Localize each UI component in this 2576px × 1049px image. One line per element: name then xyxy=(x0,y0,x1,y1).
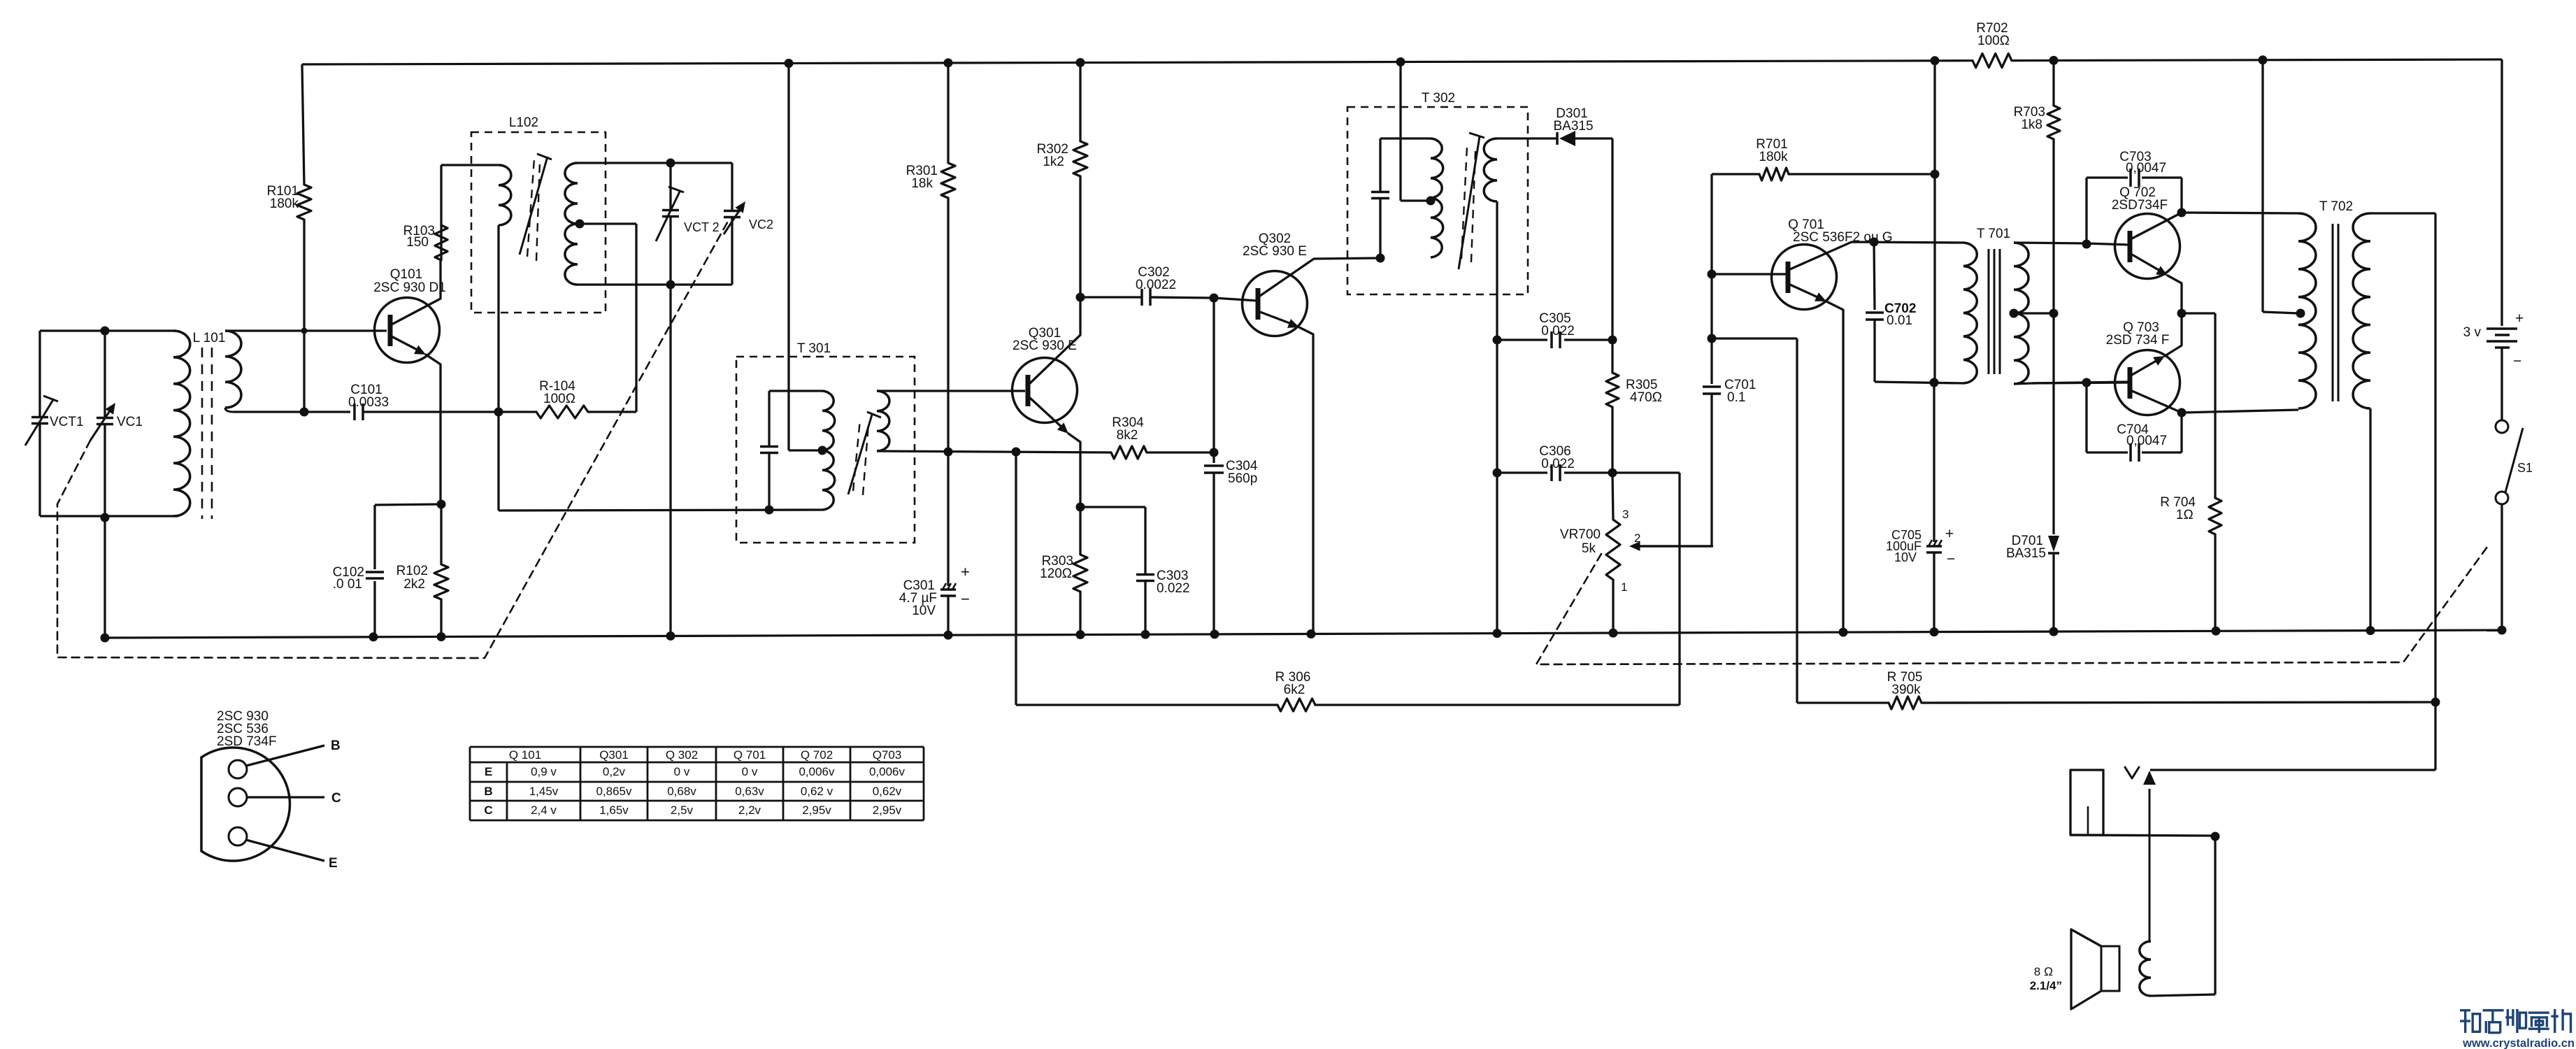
svg-text:2SC 930 E: 2SC 930 E xyxy=(1012,338,1077,353)
svg-text:180k: 180k xyxy=(1759,150,1788,164)
svg-text:Q 702: Q 702 xyxy=(801,748,833,762)
wire jack sleeve to ground xyxy=(2070,835,2215,836)
svg-text:0,865v: 0,865v xyxy=(596,785,632,798)
junction ground bus / T702 secondary xyxy=(2366,626,2375,635)
svg-text:Q 302: Q 302 xyxy=(666,748,698,762)
speaker SP (8 ohm) xyxy=(2071,929,2101,1009)
oscillator coil L102 secondary xyxy=(565,163,578,285)
wire Q302 base xyxy=(1214,298,1257,301)
junction detector / C305 right xyxy=(1608,336,1617,345)
svg-text:+: + xyxy=(1945,526,1954,542)
svg-text:0.0022: 0.0022 xyxy=(1136,278,1176,292)
wire Q702 collector xyxy=(2132,213,2182,238)
wire Q301 base xyxy=(877,390,1025,392)
junction ground bus / Q701 emitter xyxy=(1839,628,1848,637)
output transformer T702 primary xyxy=(2298,213,2316,408)
oscillator coil L102 slug xyxy=(520,157,548,255)
svg-text:1: 1 xyxy=(1621,580,1627,594)
wire Q701 collector xyxy=(1790,242,1963,269)
resistor R701 xyxy=(1712,173,1759,175)
junction L102 primary / C101-R104 line xyxy=(494,408,503,417)
wire bias line to R306 xyxy=(1015,452,1017,705)
junction T701 tap xyxy=(2010,309,2019,318)
junction T702 primary tap xyxy=(2296,309,2305,318)
transistor Q703 xyxy=(2115,350,2180,415)
wire L101 secondary bottom to C101 xyxy=(234,411,350,413)
svg-text:390k: 390k xyxy=(1891,683,1921,697)
potentiometer VR700 wiper xyxy=(1629,541,1640,551)
junction top-bus / R301 xyxy=(944,58,953,67)
svg-text:2,4 v: 2,4 v xyxy=(531,804,557,817)
wire T701 secondary top xyxy=(2014,243,2087,243)
wire Q302 emitter xyxy=(1260,312,1295,325)
pinout pin C xyxy=(229,788,247,806)
svg-text:VCT1: VCT1 xyxy=(50,415,84,429)
svg-text:T 302: T 302 xyxy=(1422,91,1455,106)
svg-text:120Ω: 120Ω xyxy=(1040,566,1072,581)
junction collector / C702 xyxy=(1870,238,1879,247)
wire ground leg to speaker xyxy=(2214,836,2216,994)
junction C306 right / VR700 top xyxy=(1608,469,1617,478)
resistor R102 xyxy=(440,504,442,564)
junction bias line / R306 xyxy=(1012,448,1021,457)
capacitor C302 xyxy=(1080,296,1141,298)
svg-text:18k: 18k xyxy=(911,176,933,191)
svg-text:0,9 v: 0,9 v xyxy=(531,765,557,778)
diode D701 xyxy=(2052,313,2054,534)
wire B+ to T302 tap xyxy=(1399,62,1401,201)
junction VC1 bottom xyxy=(101,513,110,522)
wire antenna tank top xyxy=(40,329,173,331)
wire oscillator tank to ground xyxy=(669,285,671,636)
wire Q301 collector xyxy=(1030,335,1080,383)
IF transformer T302 secondary xyxy=(1484,138,1497,201)
oscillator coil L102 shield box xyxy=(471,132,606,313)
svg-text:Q703: Q703 xyxy=(873,748,902,762)
wire antenna tank bottom xyxy=(40,515,178,517)
resistor R306 xyxy=(1278,699,1315,711)
wire IF base-bias line xyxy=(877,451,1111,452)
junction C305 left xyxy=(1493,336,1502,345)
diode D301 xyxy=(1556,132,1559,145)
wire Q703 emitter xyxy=(2132,359,2159,375)
variable capacitor VC2 xyxy=(731,163,733,210)
potentiometer VR700 xyxy=(1612,473,1613,520)
svg-text:1,45v: 1,45v xyxy=(529,785,559,798)
svg-text:VC2: VC2 xyxy=(749,217,773,231)
driver transformer T701 primary xyxy=(1963,243,1977,383)
junction ground bus / VCT2/VC2 rail xyxy=(666,631,675,641)
junction ground bus / R303 xyxy=(1076,630,1085,639)
pinout pin E xyxy=(229,827,247,845)
junction ground bus / VR700 xyxy=(1609,629,1618,638)
resistor R705 xyxy=(1889,697,1922,709)
junction ground bus / R704 xyxy=(2212,627,2221,636)
oscillator coil L102 primary xyxy=(499,165,511,225)
ferrite antenna L101 primary xyxy=(173,331,190,516)
svg-text:BA315: BA315 xyxy=(1553,119,1593,134)
svg-text:0,006v: 0,006v xyxy=(869,765,906,778)
svg-text:BA315: BA315 xyxy=(2006,546,2046,561)
wire L102 secondary tap xyxy=(578,222,636,224)
trimmer capacitor VCT2 xyxy=(669,163,671,209)
svg-text:E: E xyxy=(329,856,338,871)
svg-text:VR700: VR700 xyxy=(1560,527,1601,542)
junction R101 / C101 node xyxy=(300,408,309,417)
svg-text:2SD 734 F: 2SD 734 F xyxy=(2106,333,2170,348)
junction ground bus / Q302 emitter xyxy=(1307,629,1316,638)
capacitor T302 internal xyxy=(1379,138,1381,191)
wire oscillator tank bottom xyxy=(578,283,732,285)
wire top supply bus (left of R702) xyxy=(302,61,1973,64)
trimmer capacitor VCT1 xyxy=(38,331,41,416)
junction ground bus / R102 xyxy=(437,632,446,641)
svg-text:560p: 560p xyxy=(1228,471,1257,486)
svg-text:0,006v: 0,006v xyxy=(799,765,835,778)
junction Q703 base / C704 xyxy=(2082,378,2091,387)
resistor R301 xyxy=(947,63,949,163)
capacitor C301 (electrolytic) xyxy=(947,452,949,586)
svg-text:VCT 2: VCT 2 xyxy=(684,220,720,234)
wire Q302 collector xyxy=(1260,258,1380,296)
junction VCT2 top xyxy=(666,159,675,168)
capacitor C305 xyxy=(1497,338,1547,341)
wire T701 secondary tap xyxy=(2014,312,2054,314)
capacitor C101 xyxy=(353,404,356,420)
svg-text:+: + xyxy=(2515,311,2524,327)
svg-text:180k: 180k xyxy=(270,197,299,211)
junction push-pull emitter node xyxy=(2177,309,2187,318)
junction top-bus / T302 feed xyxy=(1396,57,1405,66)
svg-text:6k2: 6k2 xyxy=(1284,683,1305,697)
capacitor C306 xyxy=(1497,471,1547,473)
svg-text:L 101: L 101 xyxy=(193,331,226,345)
svg-text:−: − xyxy=(1947,551,1955,567)
junction Q702 base / C703 xyxy=(2082,240,2091,249)
wire R103 top to L102 primary xyxy=(441,164,499,166)
svg-text:B: B xyxy=(484,785,492,798)
capacitor C303 xyxy=(1080,506,1145,508)
junction jack / ground leg xyxy=(2211,832,2220,841)
junction base node / R705 branch xyxy=(1708,334,1717,343)
wire T302 cap top xyxy=(1380,137,1431,139)
junction top-bus / T702 tap feed xyxy=(2259,55,2268,64)
junction ground bus / C705 xyxy=(1930,627,1939,636)
wire R705 line xyxy=(1797,701,1889,704)
resistor R302 xyxy=(1079,63,1081,142)
svg-text:10V: 10V xyxy=(912,604,936,618)
svg-text:T 702: T 702 xyxy=(2319,199,2353,214)
junction C306 left xyxy=(1493,469,1502,478)
wire base node to R705 line xyxy=(1710,274,1712,338)
voltage table xyxy=(470,746,924,748)
svg-text:1,65v: 1,65v xyxy=(599,804,629,817)
pinout pin B xyxy=(229,760,247,778)
capacitor C702 xyxy=(1874,242,1875,310)
wire battery feed xyxy=(2500,59,2503,326)
variable capacitor VC1 xyxy=(103,331,106,417)
transistor Q702 xyxy=(2115,214,2180,279)
pinout diagram case xyxy=(201,748,290,861)
resistor R305 xyxy=(1611,340,1613,373)
output transformer T702 core xyxy=(2332,224,2334,401)
svg-text:www.crystalradio.cn: www.crystalradio.cn xyxy=(2462,1037,2575,1049)
resistor R-104 xyxy=(499,411,536,413)
switch S1 xyxy=(2496,420,2508,433)
IF transformer T302 shield box xyxy=(1347,107,1528,294)
wire top supply bus (right of R702) xyxy=(2012,59,2502,61)
junction emitter / C102 / R102 xyxy=(437,500,446,509)
junction T301 cap bottom xyxy=(765,506,774,515)
resistor R101 xyxy=(302,64,304,185)
junction R301 / base-bias line xyxy=(944,448,953,457)
junction Q702 collector / C703 xyxy=(2177,208,2187,217)
svg-text:0,2v: 0,2v xyxy=(603,765,626,778)
capacitor C703 xyxy=(2085,178,2087,244)
svg-text:8 Ω: 8 Ω xyxy=(2034,965,2053,978)
earphone jack body xyxy=(2070,770,2103,835)
svg-text:5k: 5k xyxy=(1582,541,1596,556)
junction VCT2 bottom xyxy=(666,280,675,290)
svg-text:−: − xyxy=(2513,353,2521,369)
junction tap / R703 / D701 xyxy=(2049,309,2059,318)
wire Q702 emitter xyxy=(2132,255,2163,273)
ferrite antenna L101 core xyxy=(201,348,203,519)
IF transformer T301 slug xyxy=(848,415,872,494)
svg-text:T 701: T 701 xyxy=(1977,227,2010,241)
junction ground bus / switch xyxy=(2498,626,2507,635)
svg-text:10V: 10V xyxy=(1894,550,1917,564)
svg-text:2SD 734F: 2SD 734F xyxy=(217,734,277,749)
wire switch to ground bus xyxy=(2500,504,2503,630)
svg-text:VC1: VC1 xyxy=(117,415,143,429)
junction secondary top / R705 xyxy=(2431,698,2440,707)
junction ground bus / VC1 xyxy=(101,634,110,643)
svg-text:2,5v: 2,5v xyxy=(671,804,694,817)
transistor Q101 xyxy=(375,298,440,363)
junction top-bus / R302 xyxy=(1076,58,1085,67)
wire D301 to detector node xyxy=(1575,137,1612,139)
junction top-bus / IF-T301 feed xyxy=(785,59,794,68)
svg-text:2,95v: 2,95v xyxy=(802,804,831,817)
wire secondary to jack xyxy=(2434,702,2436,770)
resistor R304 xyxy=(1111,446,1147,459)
svg-text:0 022: 0 022 xyxy=(1541,324,1575,338)
svg-text:2k2: 2k2 xyxy=(403,577,425,592)
earphone jack plug (arrow) xyxy=(2149,789,2151,941)
watermark crystalradio xyxy=(2460,1009,2470,1011)
wire T301 tap xyxy=(789,449,822,451)
svg-text:2SD734F: 2SD734F xyxy=(2112,198,2168,213)
capacitor C704 xyxy=(2085,383,2087,452)
resistor R702 xyxy=(1973,54,2012,68)
svg-text:1k8: 1k8 xyxy=(2021,117,2042,132)
wire B+ to T301 tap xyxy=(787,64,789,451)
speaker voice coil xyxy=(2140,941,2151,996)
wire Q101 collector xyxy=(392,260,441,324)
svg-text:C: C xyxy=(331,791,341,806)
svg-text:2SC 930 E: 2SC 930 E xyxy=(1243,244,1307,259)
junction R304 / C304 / Q302 base leg xyxy=(1210,448,1219,457)
junction T301 primary tap xyxy=(818,446,827,455)
resistor R703 xyxy=(2052,60,2054,106)
resistor R704 xyxy=(2209,498,2221,534)
svg-text:0 v: 0 v xyxy=(674,765,690,778)
svg-text:0.0033: 0.0033 xyxy=(348,395,389,410)
wire AF rail xyxy=(1933,61,1935,382)
svg-text:.0 01: .0 01 xyxy=(333,577,362,592)
svg-text:0.022: 0.022 xyxy=(1541,457,1575,471)
transistor Q302 xyxy=(1243,271,1308,336)
junction ground bus / C301 xyxy=(944,631,953,640)
wire Q701 emitter xyxy=(1790,285,1822,299)
svg-text:2.1/4”: 2.1/4” xyxy=(2030,979,2062,992)
svg-text:0,63v: 0,63v xyxy=(735,785,764,798)
IF transformer T302 slug xyxy=(1459,136,1480,269)
capacitor C705 (electrolytic) xyxy=(1933,383,1935,542)
junction L102 tap xyxy=(575,220,585,229)
junction ground bus / C303 xyxy=(1141,630,1150,639)
junction C302 / Q302 base xyxy=(1210,294,1219,303)
IF transformer T301 primary xyxy=(822,391,835,510)
svg-text:E: E xyxy=(485,765,492,778)
ferrite antenna L101 secondary xyxy=(225,331,241,408)
junction VC1 top xyxy=(101,327,110,336)
svg-text:0.022: 0.022 xyxy=(1157,581,1190,596)
transistor Q301 xyxy=(1012,358,1078,423)
svg-text:100Ω: 100Ω xyxy=(1977,34,2010,48)
capacitor C701 xyxy=(1710,338,1712,384)
svg-text:0,0047: 0,0047 xyxy=(2126,161,2166,176)
capacitor T301 internal xyxy=(768,391,770,445)
resistor R303 xyxy=(1079,507,1081,555)
junction ground bus / C102 xyxy=(369,632,378,641)
junction primary bottom / C705 xyxy=(1930,378,1939,387)
svg-text:1Ω: 1Ω xyxy=(2176,508,2194,522)
junction ground bus / C304 xyxy=(1210,629,1219,638)
svg-text:2SC 930 D1: 2SC 930 D1 xyxy=(373,280,446,295)
wire Q101 emitter xyxy=(392,336,422,352)
IF transformer T301 secondary xyxy=(877,391,889,451)
wire R701 to Q701 base xyxy=(1710,174,1712,274)
svg-text:100Ω: 100Ω xyxy=(543,392,575,406)
svg-text:Q 101: Q 101 xyxy=(509,748,541,762)
junction top-bus / R703 xyxy=(2049,56,2059,65)
svg-text:2,2v: 2,2v xyxy=(738,804,761,817)
capacitor C102 xyxy=(375,504,441,505)
svg-text:150: 150 xyxy=(406,235,429,250)
wire C101 to R-104 node xyxy=(363,411,499,413)
earphone jack tip contact xyxy=(2125,767,2139,778)
junction T302 primary tap xyxy=(1426,197,1436,206)
resistor R103 xyxy=(440,225,442,260)
wire T702 tap feed xyxy=(2261,60,2263,312)
junction Q301 emitter / R303 / C303 xyxy=(1076,503,1085,512)
wire emitter node to R704 xyxy=(2182,312,2215,314)
wire Q101 base xyxy=(225,329,387,331)
svg-text:+: + xyxy=(961,563,970,580)
svg-text:0,62 v: 0,62 v xyxy=(801,785,833,798)
svg-text:0,68v: 0,68v xyxy=(667,785,696,798)
wire T302 secondary top to D301 xyxy=(1497,137,1557,139)
output transformer T702 secondary xyxy=(2353,213,2370,408)
volume/switch link (dashed) xyxy=(1536,544,2489,664)
svg-text:B: B xyxy=(331,738,341,753)
tuning gang link (dashed) xyxy=(57,219,729,658)
svg-text:C: C xyxy=(484,804,492,817)
wire T701 secondary bottom xyxy=(2014,383,2032,384)
capacitor C304 xyxy=(1212,297,1215,463)
wire Q703 base xyxy=(2032,382,2129,383)
junction T302 primary bottom xyxy=(1376,254,1385,263)
driver transformer T701 core xyxy=(1988,249,1990,374)
wire T702 secondary top xyxy=(2370,212,2435,214)
svg-text:Q101: Q101 xyxy=(390,267,422,282)
junction ground bus / T302 secondary xyxy=(1493,629,1502,638)
wire T701 primary bottom rail xyxy=(1875,382,1963,383)
battery BT 3v xyxy=(2486,327,2517,330)
wire T301 cap top xyxy=(769,390,822,392)
svg-text:Q 701: Q 701 xyxy=(734,748,766,762)
svg-text:L102: L102 xyxy=(509,115,538,130)
svg-text:0.01: 0.01 xyxy=(1887,313,1912,328)
svg-text:3: 3 xyxy=(1622,508,1629,521)
svg-text:1k2: 1k2 xyxy=(1043,155,1064,169)
svg-text:3 v: 3 v xyxy=(2463,325,2482,340)
wire Q301 emitter xyxy=(1030,398,1064,429)
driver transformer T701 secondary xyxy=(2014,243,2028,384)
junction Q703 collector / C704 xyxy=(2177,408,2187,418)
svg-text:0,62v: 0,62v xyxy=(873,785,902,798)
svg-text:T 301: T 301 xyxy=(797,341,831,356)
transistor Q701 xyxy=(1772,245,1837,310)
junction AF rail / R701 xyxy=(1931,170,1940,179)
wire Q702 base xyxy=(2087,243,2129,245)
svg-text:2,95v: 2,95v xyxy=(873,804,902,817)
svg-text:8k2: 8k2 xyxy=(1117,428,1138,443)
junction Q301 collector / C302 xyxy=(1076,293,1085,302)
svg-text:−: − xyxy=(961,590,970,608)
junction R101 / base wire xyxy=(301,328,308,334)
wire T301 bottom rail xyxy=(499,510,822,511)
IF transformer T302 primary xyxy=(1431,138,1443,257)
svg-text:0,0047: 0,0047 xyxy=(2126,434,2167,448)
wire L102 tap to R-104 xyxy=(635,224,637,412)
svg-text:470Ω: 470Ω xyxy=(1630,390,1662,405)
wire T702 secondary bottom xyxy=(2369,408,2371,631)
svg-text:0.1: 0.1 xyxy=(1727,390,1745,405)
wire C306 to AGC return xyxy=(1612,471,1680,473)
svg-text:Q301: Q301 xyxy=(599,748,629,762)
svg-text:S1: S1 xyxy=(2517,461,2533,475)
wire Q701 base xyxy=(1712,273,1787,275)
IF transformer T301 shield box xyxy=(736,357,915,543)
svg-text:0 v: 0 v xyxy=(742,765,758,778)
wire bottom ground bus xyxy=(105,630,2502,638)
junction top-bus / AF rail xyxy=(1931,56,1940,65)
wire Q703 collector xyxy=(2132,391,2182,413)
junction Q701 base node xyxy=(1708,270,1717,279)
junction ground bus / D701 xyxy=(2049,627,2059,636)
svg-text:R102: R102 xyxy=(396,564,428,578)
wire oscillator tank top xyxy=(578,162,732,164)
